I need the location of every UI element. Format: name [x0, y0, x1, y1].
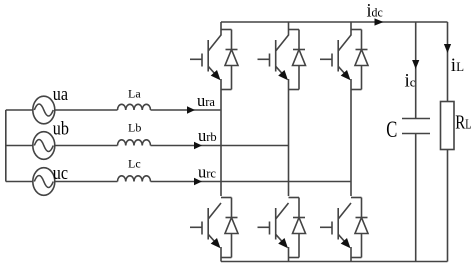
svg-text:ura: ura	[197, 91, 215, 110]
wire diode branch D4	[221, 198, 232, 258]
wire diode branch D6	[289, 198, 300, 258]
wire source to inductor Lc	[55, 181, 118, 183]
wire leg b upper stub	[288, 22, 290, 36]
wire left AC bus	[5, 110, 7, 182]
wire load branch upper	[447, 22, 449, 102]
wire leg c upper stub	[350, 22, 352, 36]
wire inductor to bridge leg c	[151, 181, 352, 183]
inductor Lb	[118, 140, 151, 146]
wire leg b lower stub	[288, 247, 290, 262]
AC source uc	[33, 168, 55, 196]
transistor Q5 (IGBT)	[320, 35, 351, 80]
wire source to inductor Lb	[55, 145, 118, 147]
wire diode branch D2	[351, 198, 362, 258]
diode D4 (freewheeling)	[225, 218, 238, 234]
svg-text:Lc: Lc	[128, 157, 141, 171]
diode D5 (freewheeling)	[355, 50, 368, 66]
svg-text:iL: iL	[451, 55, 464, 76]
arrow ic	[412, 60, 419, 69]
inductor Lc	[118, 176, 151, 182]
capacitor C	[402, 119, 430, 134]
svg-text:ub: ub	[53, 117, 69, 139]
wire leg a lower stub	[220, 247, 222, 262]
svg-text:urb: urb	[198, 126, 217, 145]
arrow phase current a	[187, 106, 195, 114]
svg-text:urc: urc	[198, 163, 216, 182]
diode D6 (freewheeling)	[293, 218, 306, 234]
transistor Q6 (IGBT)	[258, 203, 289, 248]
inductor La	[118, 104, 151, 110]
wire phase a from bus to source	[6, 109, 33, 111]
wire negative DC bus (bottom)	[221, 261, 448, 263]
wire phase c from bus to source	[6, 181, 33, 183]
arrow phase current b	[194, 142, 202, 150]
wire load branch lower	[447, 150, 449, 262]
svg-text:C: C	[386, 118, 397, 143]
AC source ub	[33, 132, 55, 160]
transistor Q1 (IGBT)	[190, 35, 221, 80]
wire inductor to bridge leg a	[151, 109, 222, 111]
transistor Q4 (IGBT)	[190, 203, 221, 248]
wire source to inductor La	[55, 109, 118, 111]
wire diode branch D5	[351, 30, 362, 90]
diode D1 (freewheeling)	[225, 50, 238, 66]
wire leg a upper stub	[220, 22, 222, 36]
arrow idc	[375, 18, 384, 25]
diode D2 (freewheeling)	[355, 218, 368, 234]
svg-text:RL: RL	[455, 110, 471, 133]
svg-text:La: La	[128, 87, 141, 101]
wire positive DC bus (top)	[221, 21, 448, 23]
resistor RL (load)	[441, 102, 455, 150]
svg-text:uc: uc	[53, 162, 68, 184]
wire phase b from bus to source	[6, 145, 33, 147]
svg-text:ic: ic	[405, 71, 416, 92]
svg-text:idc: idc	[367, 0, 384, 21]
transistor Q3 (IGBT)	[258, 35, 289, 80]
arrow iL	[444, 44, 451, 53]
wire capacitor branch lower	[415, 134, 417, 262]
arrow phase current c	[194, 178, 202, 186]
svg-text:ua: ua	[53, 83, 68, 105]
transistor Q2 (IGBT)	[320, 203, 351, 248]
wire leg a midsection	[220, 79, 222, 196]
wire diode branch D1	[221, 30, 232, 90]
wire leg b midsection	[288, 79, 290, 196]
AC source ua	[33, 96, 55, 124]
wire capacitor branch upper	[415, 22, 417, 119]
wire leg c midsection	[350, 79, 352, 196]
wire inductor to bridge leg b	[151, 145, 289, 147]
wire diode branch D3	[289, 30, 300, 90]
diode D3 (freewheeling)	[293, 50, 306, 66]
svg-text:Lb: Lb	[128, 121, 141, 135]
wire leg c lower stub	[350, 247, 352, 262]
